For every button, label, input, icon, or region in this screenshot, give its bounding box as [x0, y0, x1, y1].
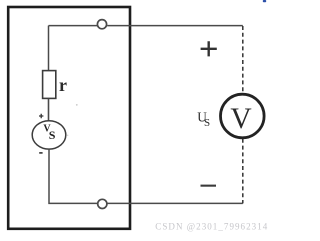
wire bottom terminal to right — [108, 202, 243, 204]
blue mark top-right — [263, 0, 266, 2]
voltmeter V1 — [221, 94, 265, 138]
polarity plus — [201, 41, 217, 56]
wire top inner horizontal — [49, 25, 98, 27]
dashed lead top — [242, 26, 244, 93]
bottom terminal — [98, 199, 107, 208]
two-terminal network box — [8, 7, 130, 229]
wire resistor to source — [48, 99, 50, 121]
faint speck left of box interior — [76, 104, 78, 106]
source polarity plus — [39, 114, 43, 118]
faint speck right of source — [67, 135, 69, 137]
wire left vertical to resistor — [48, 26, 50, 71]
source polarity minus — [39, 152, 42, 154]
svg-text:S: S — [49, 128, 56, 142]
wire top terminal to right — [107, 25, 243, 27]
dashed lead bottom — [242, 139, 244, 204]
resistor r — [43, 71, 56, 99]
voltage source VS ellipse — [32, 121, 66, 149]
wire source to bottom — [49, 149, 97, 203]
top terminal — [97, 20, 106, 29]
polarity minus — [201, 185, 217, 187]
svg-text:CSDN @2301_79962314: CSDN @2301_79962314 — [155, 221, 268, 231]
svg-text:S: S — [204, 117, 210, 129]
svg-text:V: V — [230, 103, 251, 135]
svg-text:r: r — [59, 75, 67, 95]
